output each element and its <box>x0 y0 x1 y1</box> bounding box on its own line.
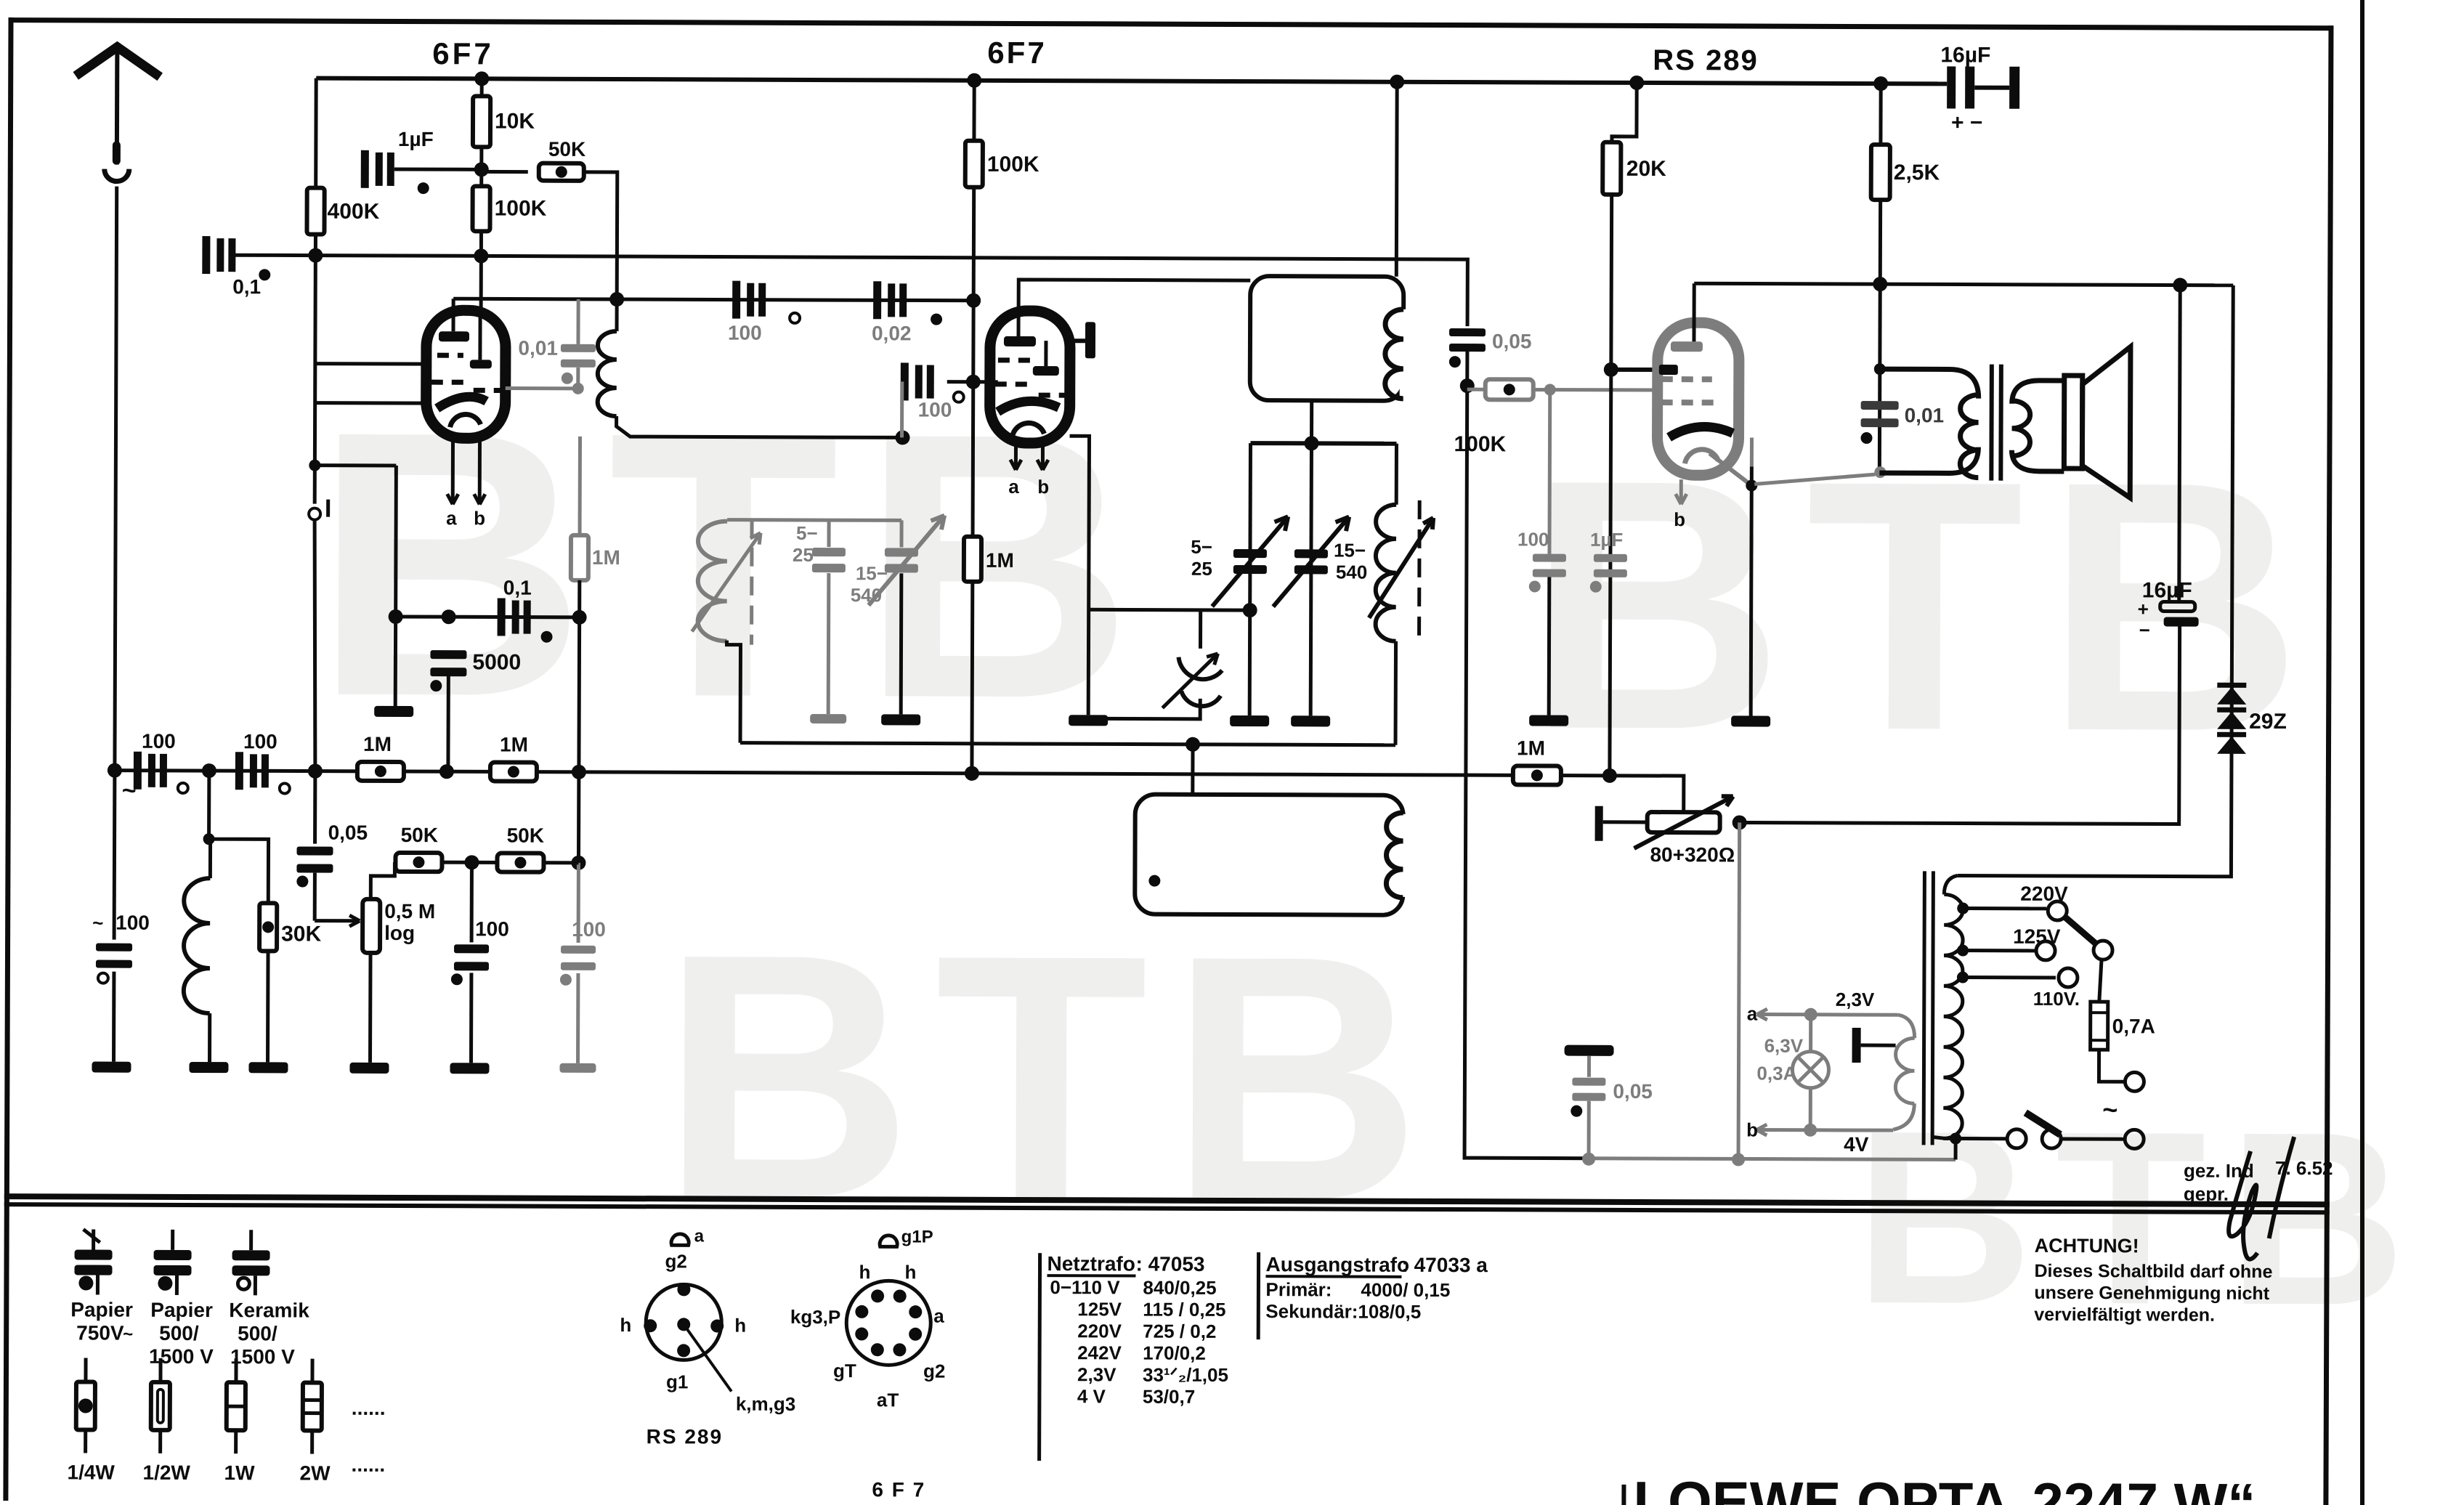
svg-text:vervielfältigt werden.: vervielfältigt werden. <box>2034 1305 2215 1326</box>
svg-text:Primär:: Primär: <box>1265 1278 1332 1300</box>
svg-text:6F7: 6F7 <box>432 36 494 70</box>
svg-text:: 47053: : 47053 <box>1135 1253 1204 1275</box>
svg-text:220V: 220V <box>2020 883 2068 905</box>
svg-text:0,01: 0,01 <box>518 337 558 360</box>
svg-text:aT: aT <box>877 1389 899 1411</box>
svg-text:unsere Genehmigung nicht: unsere Genehmigung nicht <box>2034 1283 2269 1304</box>
svg-text:100K: 100K <box>495 196 547 220</box>
svg-text:5−: 5− <box>796 522 818 544</box>
svg-text:Netztrafo: Netztrafo <box>1047 1252 1135 1275</box>
svg-text:0,05: 0,05 <box>328 822 368 844</box>
svg-text:: 47033 a: : 47033 a <box>1401 1254 1488 1276</box>
svg-text:Sekundär:108/0,5: Sekundär:108/0,5 <box>1265 1300 1421 1323</box>
svg-text:1/4W: 1/4W <box>67 1461 115 1483</box>
svg-text:2,3V: 2,3V <box>1077 1363 1116 1385</box>
svg-text:1W: 1W <box>224 1461 255 1484</box>
svg-text:500/: 500/ <box>159 1322 199 1344</box>
svg-text:100: 100 <box>475 917 509 940</box>
svg-text:840/0,25: 840/0,25 <box>1143 1277 1216 1299</box>
svg-text:b: b <box>1674 508 1685 530</box>
svg-text:h: h <box>859 1261 870 1283</box>
svg-text:b: b <box>1746 1119 1758 1140</box>
svg-text:16µF: 16µF <box>2142 578 2192 602</box>
svg-text:100: 100 <box>142 730 176 752</box>
svg-text:33¹ᐟ₂/1,05: 33¹ᐟ₂/1,05 <box>1143 1364 1228 1386</box>
svg-text:2W: 2W <box>299 1462 331 1485</box>
svg-text:Papier: Papier <box>70 1298 133 1321</box>
svg-text:ACHTUNG!: ACHTUNG! <box>2035 1235 2139 1257</box>
svg-text:100: 100 <box>243 730 277 752</box>
svg-text:16µF: 16µF <box>1940 43 1990 67</box>
svg-text:b: b <box>474 507 485 529</box>
svg-text:0,05: 0,05 <box>1613 1080 1653 1103</box>
svg-text:1M: 1M <box>363 733 392 755</box>
svg-text:540: 540 <box>851 584 882 606</box>
svg-text:100: 100 <box>918 398 952 421</box>
svg-text:540: 540 <box>1336 561 1367 583</box>
svg-text:100: 100 <box>1517 528 1549 550</box>
svg-text:1M: 1M <box>500 733 528 755</box>
svg-text:4V: 4V <box>1844 1133 1869 1156</box>
svg-text:50K: 50K <box>507 824 544 847</box>
svg-text:100: 100 <box>728 322 762 344</box>
svg-text:+: + <box>2138 598 2149 620</box>
svg-text:220V: 220V <box>1077 1320 1122 1342</box>
svg-text:BTB: BTB <box>660 880 1443 1273</box>
svg-text:100K: 100K <box>1454 432 1506 456</box>
svg-text:Papier: Papier <box>150 1299 213 1321</box>
svg-text:0,1: 0,1 <box>503 576 532 599</box>
svg-text:25: 25 <box>1191 558 1212 580</box>
svg-text:0,05: 0,05 <box>1492 330 1532 352</box>
svg-text:„2247 W“: „2247 W“ <box>2003 1471 2256 1505</box>
svg-text:110V.: 110V. <box>2033 988 2080 1010</box>
svg-text:BTB: BTB <box>313 353 1156 778</box>
svg-text:......: ...... <box>352 1397 386 1419</box>
svg-text:a: a <box>694 1226 705 1246</box>
svg-text:h: h <box>620 1314 631 1336</box>
svg-text:+ −: + − <box>1951 110 1982 134</box>
svg-text:100: 100 <box>115 912 150 934</box>
svg-text:400K: 400K <box>328 200 380 224</box>
svg-text:50K: 50K <box>548 138 585 161</box>
svg-text:h: h <box>734 1315 746 1336</box>
svg-text:125V: 125V <box>2013 925 2061 948</box>
svg-text:10K: 10K <box>495 109 535 133</box>
svg-text:0−110 V: 0−110 V <box>1050 1276 1120 1298</box>
svg-text:170/0,2: 170/0,2 <box>1143 1342 1206 1364</box>
svg-text:g1P: g1P <box>901 1227 933 1246</box>
svg-text:0,02: 0,02 <box>872 322 912 344</box>
svg-text:1500 V: 1500 V <box>149 1345 214 1368</box>
svg-text:gepr.: gepr. <box>2184 1183 2229 1205</box>
svg-text:6,3V: 6,3V <box>1764 1035 1804 1057</box>
svg-text:4 V: 4 V <box>1077 1385 1106 1407</box>
svg-text:80+320Ω: 80+320Ω <box>1650 843 1735 866</box>
svg-text:30K: 30K <box>281 922 321 946</box>
svg-text:~: ~ <box>123 1325 133 1344</box>
svg-text:0,01: 0,01 <box>1905 404 1945 426</box>
svg-text:750V: 750V <box>76 1321 124 1344</box>
svg-text:a: a <box>933 1305 944 1327</box>
svg-text:6 F 7: 6 F 7 <box>872 1478 925 1501</box>
svg-text:1M: 1M <box>592 546 620 569</box>
svg-text:g2: g2 <box>923 1360 945 1382</box>
svg-text:1500 V: 1500 V <box>230 1345 295 1368</box>
svg-text:115 / 0,25: 115 / 0,25 <box>1143 1299 1225 1321</box>
svg-text:1µF: 1µF <box>398 128 434 150</box>
svg-text:500/: 500/ <box>238 1322 277 1344</box>
svg-text:RS 289: RS 289 <box>647 1425 724 1448</box>
svg-text:~: ~ <box>92 912 103 934</box>
svg-text:4000/ 0,15: 4000/ 0,15 <box>1361 1279 1450 1301</box>
svg-text:20K: 20K <box>1626 157 1666 181</box>
svg-text:b: b <box>1037 476 1049 498</box>
svg-text:BTB: BTB <box>1526 405 2325 806</box>
svg-text:kg3,P: kg3,P <box>790 1306 840 1328</box>
svg-text:5000: 5000 <box>472 650 521 674</box>
svg-text:725 / 0,2: 725 / 0,2 <box>1143 1321 1216 1342</box>
svg-text:2,3V: 2,3V <box>1836 989 1875 1010</box>
svg-text:~: ~ <box>2102 1095 2117 1124</box>
svg-text:LOEWE OPTA: LOEWE OPTA <box>1633 1469 2010 1505</box>
svg-text:a: a <box>1008 476 1019 498</box>
svg-text:53/0,7: 53/0,7 <box>1143 1386 1195 1408</box>
svg-text:......: ...... <box>352 1453 386 1476</box>
svg-text:242V: 242V <box>1077 1342 1122 1363</box>
svg-text:6F7: 6F7 <box>987 36 1047 70</box>
svg-text:0,7A: 0,7A <box>2112 1015 2155 1037</box>
svg-text:29Z: 29Z <box>2249 710 2287 734</box>
svg-text:15−: 15− <box>1334 539 1366 561</box>
svg-text:1µF: 1µF <box>1590 529 1623 551</box>
svg-text:2,5K: 2,5K <box>1894 161 1940 184</box>
svg-text:1/2W: 1/2W <box>142 1461 190 1484</box>
svg-text:100: 100 <box>572 918 606 941</box>
svg-text:0,3A: 0,3A <box>1756 1063 1796 1084</box>
svg-text:1M: 1M <box>986 549 1014 572</box>
svg-text:25: 25 <box>793 544 814 566</box>
svg-text:5−: 5− <box>1191 536 1212 558</box>
svg-text:h: h <box>904 1261 916 1283</box>
svg-text:0,1: 0,1 <box>232 275 261 298</box>
svg-text:125V: 125V <box>1077 1298 1122 1320</box>
svg-text:g2: g2 <box>665 1250 686 1272</box>
svg-text:a: a <box>446 507 457 529</box>
svg-text:0,5 M: 0,5 M <box>384 900 435 922</box>
svg-text:a: a <box>1747 1002 1758 1024</box>
svg-text:Ausgangstrafo: Ausgangstrafo <box>1265 1253 1409 1276</box>
svg-text:1M: 1M <box>1517 737 1545 759</box>
svg-text:gT: gT <box>833 1360 856 1382</box>
svg-text:50K: 50K <box>401 824 438 846</box>
svg-text:g1: g1 <box>666 1371 688 1392</box>
svg-text:15−: 15− <box>856 562 888 584</box>
svg-text:100K: 100K <box>987 153 1039 177</box>
svg-text:RS 289: RS 289 <box>1653 44 1759 77</box>
svg-text:Dieses Schaltbild darf ohne: Dieses Schaltbild darf ohne <box>2034 1261 2272 1282</box>
svg-text:k,m,g3: k,m,g3 <box>736 1393 795 1415</box>
svg-text:Keramik: Keramik <box>229 1299 309 1321</box>
svg-text:log: log <box>384 922 415 944</box>
svg-text:−: − <box>2139 619 2150 641</box>
